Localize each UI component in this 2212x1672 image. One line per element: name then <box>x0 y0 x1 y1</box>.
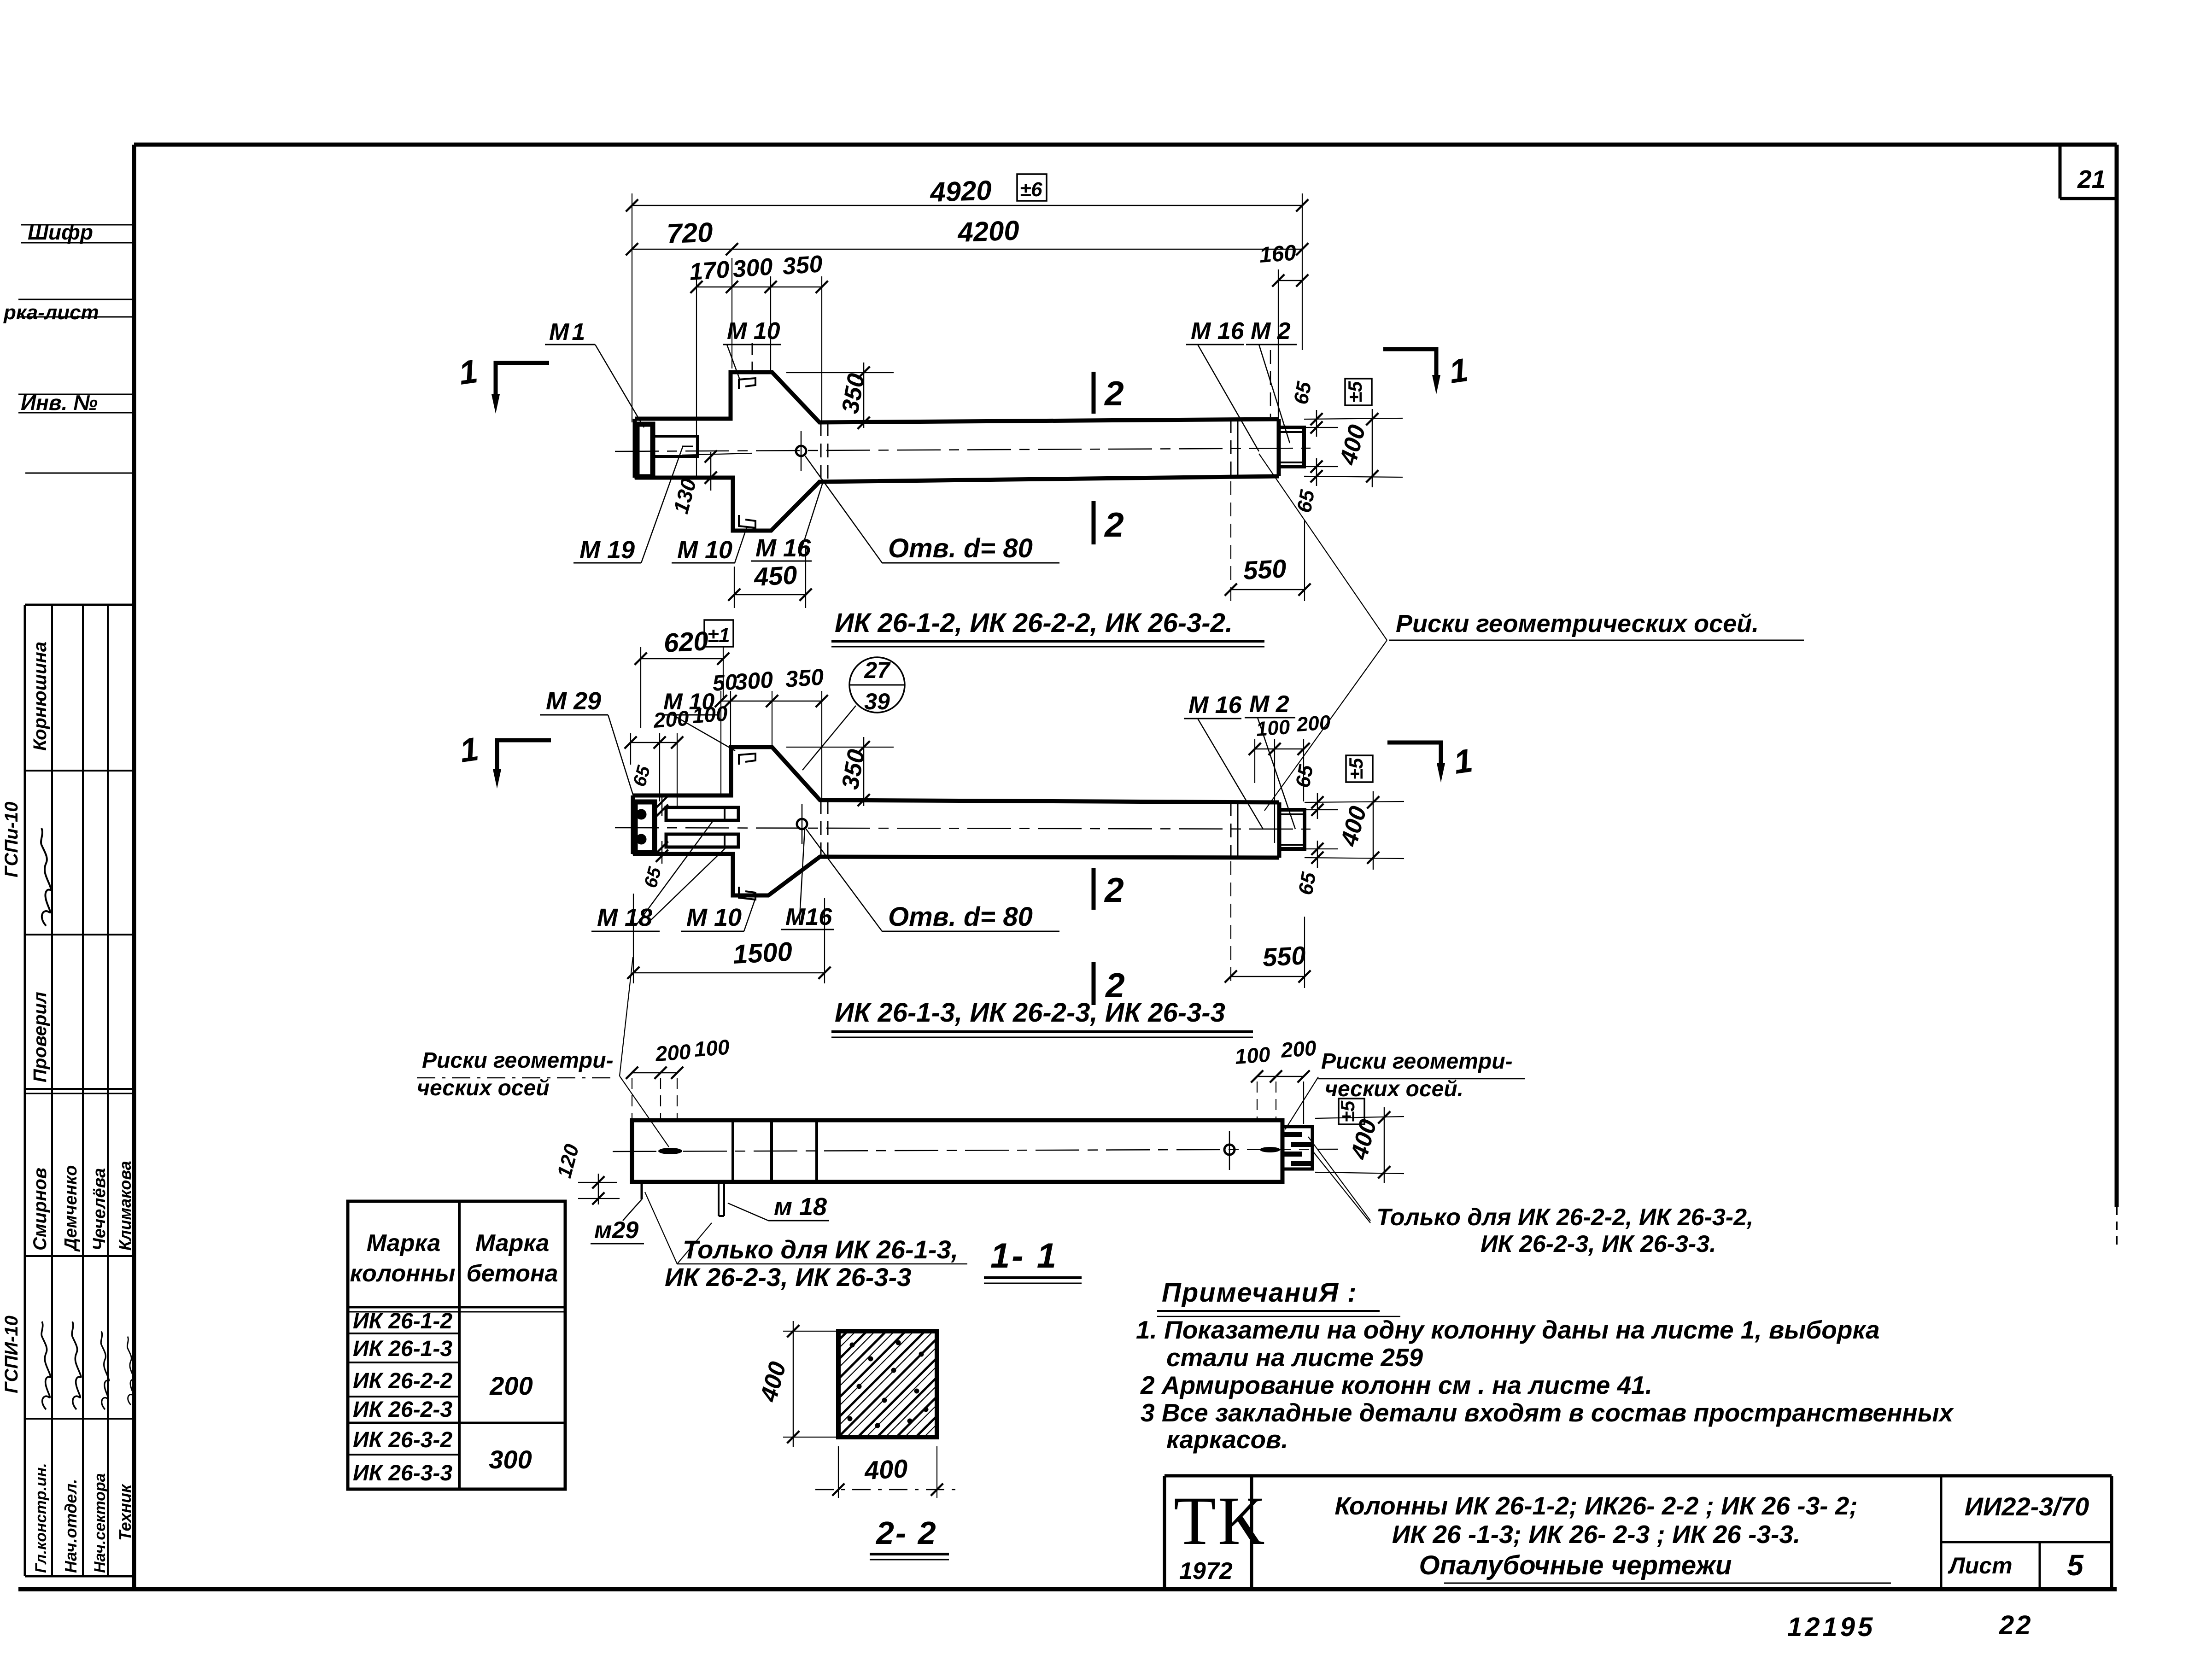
svg-text:ческих осей.: ческих осей. <box>1325 1077 1463 1101</box>
svg-text:ИК 26-2-2: ИК 26-2-2 <box>353 1369 452 1393</box>
dim 620 line <box>641 658 723 660</box>
svg-text:Отв. d= 80: Отв. d= 80 <box>888 533 1033 563</box>
stamp signature 2 (rotated) <box>41 1321 51 1409</box>
svg-text:ИК 26-2-3: ИК 26-2-3 <box>353 1397 452 1422</box>
svg-text:4920: 4920 <box>929 175 992 208</box>
svg-text:200: 200 <box>654 1040 692 1066</box>
right side 65 dim lower <box>1304 466 1338 467</box>
bottom view divider line 1 <box>731 1120 734 1182</box>
circle 27/39 leader <box>802 706 856 770</box>
position circle 27/39 <box>849 657 905 713</box>
bottom view hole <box>1224 1145 1235 1155</box>
title block horizontal divider (right) <box>1941 1541 2112 1543</box>
svg-text:21: 21 <box>2077 165 2106 193</box>
section mark 2 upper (middle view) <box>1092 868 1096 910</box>
middle view fork slot lower M18 <box>666 834 738 847</box>
svg-text:Шифр: Шифр <box>28 220 93 244</box>
svg-text:М 2: М 2 <box>1251 318 1291 345</box>
marks table row line 5 <box>348 1454 459 1456</box>
svg-text:Лист: Лист <box>1948 1553 2012 1578</box>
svg-text:±1: ±1 <box>708 624 730 647</box>
svg-text:Отв. d= 80: Отв. d= 80 <box>888 902 1033 932</box>
sheet frame right border (faint dashed part) <box>2116 1207 2118 1246</box>
dim 200/100 line (middle left) <box>631 742 677 743</box>
top view hole Otv d=80 <box>796 446 806 456</box>
svg-text:Техник: Техник <box>116 1484 135 1541</box>
svg-text:1972: 1972 <box>1179 1558 1233 1584</box>
dim 120 (bottom view left) <box>598 1174 599 1204</box>
sheet number box 21 <box>2059 145 2062 199</box>
dim 350 vertical (console height) <box>786 372 894 373</box>
sheet frame right border (solid part) <box>2115 145 2119 1207</box>
stamp table column line 2 <box>82 605 84 1576</box>
tolerance box ±6 <box>1017 174 1047 201</box>
middle view right end dashed line <box>1230 802 1232 858</box>
top view right end inner line <box>1237 419 1239 476</box>
top view section-2 dashed lines at shaft start <box>820 422 822 482</box>
dim 4920 line <box>632 205 1302 206</box>
middle view section-2 dashed lines <box>820 800 822 857</box>
svg-text:27: 27 <box>864 657 891 683</box>
stamp table row line y3080 <box>25 1418 134 1420</box>
marks table outer frame <box>348 1201 565 1489</box>
middle view M10 channel mark upper <box>739 754 755 765</box>
svg-text:2: 2 <box>1104 505 1124 544</box>
svg-text:39: 39 <box>864 689 890 714</box>
svg-text:Нач.сектора: Нач.сектора <box>91 1473 109 1573</box>
middle view anchor dot upper <box>636 809 646 819</box>
title block right edge <box>2110 1476 2113 1588</box>
section mark 2 lower (top view) <box>1092 501 1096 544</box>
sheet frame bottom border <box>18 1587 2117 1591</box>
top view centerline (dash-dot) <box>615 448 1311 451</box>
top view M10 channel mark lower <box>739 515 755 528</box>
bottom view centerline <box>613 1149 1338 1152</box>
title block right section divider <box>1940 1476 1943 1588</box>
svg-text:Марка: Марка <box>367 1230 441 1257</box>
svg-text:3 Все закладные детали вхо: 3 Все закладные детали входят в состав п… <box>1141 1398 1955 1427</box>
svg-text:200: 200 <box>1295 711 1331 736</box>
svg-text:Только для ИК 26-2-2, ИК 26-3-: Только для ИК 26-2-2, ИК 26-3-2, <box>1376 1204 1754 1231</box>
svg-text:1500: 1500 <box>732 936 793 970</box>
stamp signature 3 (rotated) <box>72 1321 81 1409</box>
svg-text:Корнюшина: Корнюшина <box>30 642 50 751</box>
svg-text:100: 100 <box>1234 1042 1271 1069</box>
right side 65 dim upper <box>1304 418 1403 419</box>
dim 350 vertical (middle console) <box>786 747 894 748</box>
svg-text:ПримечаниЯ :: ПримечаниЯ : <box>1162 1278 1358 1308</box>
svg-text:м 18: м 18 <box>774 1193 827 1221</box>
middle view column right end line <box>1277 802 1282 858</box>
svg-text:М 16: М 16 <box>1188 692 1242 719</box>
section mark 2 upper (top view) <box>1092 372 1096 414</box>
section mark 2 lower (middle view) <box>1092 962 1096 1005</box>
svg-text:Чечелёва: Чечелёва <box>90 1168 109 1251</box>
top view column outline upper <box>635 372 1279 422</box>
svg-text:160: 160 <box>1258 240 1297 267</box>
svg-text:М16: М16 <box>785 904 832 930</box>
dim 550 line (top right) <box>1231 589 1305 590</box>
dim 400 (bottom right end) <box>1315 1117 1404 1118</box>
left margin label: Шифр <box>21 224 134 226</box>
section 2-2 square outline <box>838 1331 937 1437</box>
tolerance box ±1 <box>704 620 733 647</box>
bottom view divider line 3 <box>815 1120 818 1182</box>
svg-text:Нач.отдел.: Нач.отдел. <box>61 1479 80 1573</box>
svg-text:Риски геометри-: Риски геометри- <box>422 1048 614 1073</box>
svg-text:ИК 26-3-3: ИК 26-3-3 <box>353 1461 452 1485</box>
svg-text:Проверил: Проверил <box>30 992 50 1082</box>
svg-text:ГСПИ-10: ГСПИ-10 <box>1 1315 22 1393</box>
svg-text:12195: 12195 <box>1787 1612 1875 1642</box>
svg-text:±5: ±5 <box>1344 381 1366 403</box>
bottom view M18 pin <box>718 1182 720 1216</box>
left margin stray line <box>25 473 134 474</box>
top view right tenon M2 <box>1279 427 1304 467</box>
stamp table outer box <box>25 604 134 606</box>
marks table row line 3 <box>348 1396 459 1397</box>
svg-text:22: 22 <box>1999 1610 2033 1640</box>
leaders to Tolko text (bottom right) <box>1308 1137 1370 1221</box>
left margin label: Марка-лист <box>18 299 134 300</box>
svg-text:4200: 4200 <box>957 215 1020 248</box>
sheet frame top border <box>134 143 2117 147</box>
svg-text:5: 5 <box>2067 1549 2084 1582</box>
svg-text:ИК 26-3-2: ИК 26-3-2 <box>353 1428 452 1452</box>
svg-text:ИК 26-2-3, ИК 26-3-3.: ИК 26-2-3, ИК 26-3-3. <box>1481 1231 1716 1257</box>
stamp signature 5 (rotated) <box>127 1337 134 1405</box>
svg-text:ИК 26-1-3: ИК 26-1-3 <box>353 1337 452 1361</box>
stamp table row line y2727 <box>25 1255 134 1257</box>
middle view anchor dot lower <box>636 834 646 844</box>
svg-text:стали на листе 259: стали на листе 259 <box>1166 1343 1423 1372</box>
title block top border <box>1165 1474 2112 1478</box>
svg-text:колонны: колонны <box>350 1260 456 1287</box>
top view M10 channel mark upper <box>739 378 755 389</box>
svg-text:М 10: М 10 <box>686 904 742 931</box>
middle view right tenon M2 <box>1279 810 1305 849</box>
svg-text:ческих осей: ческих осей <box>417 1076 550 1100</box>
svg-text:Колонны ИК 26-1-2; ИК26- 2-2: Колонны ИК 26-1-2; ИК26- 2-2 ; ИК 26 -3-… <box>1334 1491 1857 1520</box>
svg-text:М 10: М 10 <box>663 689 714 714</box>
svg-text:Риски геометри-: Риски геометри- <box>1321 1049 1513 1074</box>
svg-text:620: 620 <box>663 626 709 658</box>
top view bolt M19 <box>655 436 697 456</box>
stamp table row line y1673 <box>25 770 134 772</box>
dim 400 vertical (right end) <box>1372 409 1373 487</box>
section mark 1 left (top view) <box>496 363 549 397</box>
bottom view axis risk mark right <box>1260 1147 1280 1152</box>
svg-text:Смирнов: Смирнов <box>30 1168 50 1251</box>
stamp table column line 3 <box>107 605 109 1576</box>
svg-text:Марка: Марка <box>475 1230 550 1257</box>
svg-text:ИК 26-2-3, ИК 26-3-3: ИК 26-2-3, ИК 26-3-3 <box>665 1263 911 1292</box>
svg-text:2: 2 <box>1104 871 1124 909</box>
svg-text:ТК: ТК <box>1174 1483 1266 1559</box>
top view column right end line <box>1277 419 1281 476</box>
marks table column divider <box>458 1201 461 1489</box>
svg-text:М 10: М 10 <box>677 536 732 564</box>
svg-text:100: 100 <box>693 1035 731 1061</box>
svg-text:ИК 26-1-2, ИК 26-2-2, ИК 26-3-: ИК 26-1-2, ИК 26-2-2, ИК 26-3-2. <box>835 608 1233 638</box>
dim 100/200 (bottom view right) <box>1257 1076 1304 1077</box>
leaders to Tolko text (bottom left) <box>645 1192 677 1264</box>
tolerance box ±5 (top right) <box>1345 379 1372 405</box>
dim 130 vertical <box>710 452 712 491</box>
svg-text:300: 300 <box>732 253 774 283</box>
svg-text:720: 720 <box>666 217 713 249</box>
svg-text:Инв. №: Инв. № <box>21 391 98 415</box>
svg-text:1- 1: 1- 1 <box>990 1236 1058 1275</box>
middle view end plate M29 <box>635 802 655 853</box>
marks table header bottom double line <box>348 1306 565 1309</box>
svg-text:65: 65 <box>1293 488 1319 514</box>
section mark 1 right (middle view) <box>1387 742 1441 766</box>
middle view column outline lower <box>633 854 1279 895</box>
right side 65 dim lower (middle) <box>1305 848 1338 849</box>
middle view M10 channel mark lower <box>739 887 755 900</box>
dim 170/300/350 extension lines <box>696 276 697 479</box>
svg-text:бетона: бетона <box>467 1260 558 1287</box>
stamp table row line y2029 <box>25 934 134 935</box>
svg-text:ИИ22-3/70: ИИ22-3/70 <box>1965 1492 2089 1521</box>
top view end plate M1 <box>637 424 653 477</box>
svg-text:350: 350 <box>782 251 824 280</box>
svg-text:М 2: М 2 <box>1249 691 1289 718</box>
section mark 1 right (top view) <box>1383 349 1436 378</box>
dim 550 line (middle right) <box>1231 976 1305 977</box>
svg-text:200: 200 <box>1280 1036 1317 1062</box>
stamp table column line 1 <box>51 605 53 1576</box>
svg-text:М 19: М 19 <box>579 536 635 564</box>
svg-text:550: 550 <box>1262 941 1306 972</box>
svg-text:Только для ИК 26-1-3,: Только для ИК 26-1-3, <box>683 1235 958 1264</box>
stamp signature 4 (rotated) <box>101 1331 109 1409</box>
svg-text:2 Армирование колонн см .: 2 Армирование колонн см . на листе 41. <box>1140 1371 1652 1399</box>
svg-text:М 10: М 10 <box>727 318 780 345</box>
bottom view right tenon serrated <box>1282 1127 1312 1169</box>
svg-text:М 29: М 29 <box>546 687 601 715</box>
tolerance box ±5 (bottom right) <box>1339 1099 1364 1124</box>
svg-text:300: 300 <box>489 1445 532 1474</box>
svg-text:65: 65 <box>1290 380 1316 406</box>
middle view right end inner line <box>1237 802 1239 858</box>
marks table row line 1 <box>348 1333 459 1334</box>
section mark 1 left (middle view) <box>497 740 551 772</box>
svg-text:±6: ±6 <box>1020 178 1042 201</box>
dim 4920 extension lines <box>632 193 632 422</box>
svg-text:550: 550 <box>1242 554 1287 585</box>
svg-text:каркасов.: каркасов. <box>1166 1425 1288 1454</box>
svg-text:ИК 26 -1-3; ИК 26- 2-3 ; ИК: ИК 26 -1-3; ИК 26- 2-3 ; ИК 26 -3-3. <box>1392 1520 1801 1549</box>
bottom view body outline <box>632 1120 1282 1182</box>
stamp signature 1 (rotated) <box>41 828 51 926</box>
section 2-2 concrete dots <box>850 1343 855 1348</box>
svg-text:ИК 26-1-3, ИК 26-2-3, ИК 26-3-: ИК 26-1-3, ИК 26-2-3, ИК 26-3-3 <box>835 998 1225 1028</box>
svg-text:Климакова: Климакова <box>116 1161 135 1251</box>
marks table row line 4 <box>348 1422 565 1424</box>
bottom view axis risk mark left <box>658 1148 682 1154</box>
marks table row line 2 <box>348 1362 459 1363</box>
svg-text:2- 2: 2- 2 <box>875 1515 937 1551</box>
svg-text:ИК 26-1-2: ИК 26-1-2 <box>353 1309 452 1333</box>
dim 170/300/350 line <box>696 286 822 288</box>
top view column outline lower <box>635 476 1279 531</box>
top view right end dashed line <box>1230 419 1232 476</box>
title block TK box <box>1163 1476 1166 1588</box>
tolerance box ±5 (middle right) <box>1346 755 1373 782</box>
sheet frame left border <box>132 145 136 1589</box>
dim 450 line <box>734 594 806 596</box>
middle view centerline (dash-dot) <box>615 828 1311 829</box>
bottom view divider line 2 <box>770 1120 773 1182</box>
svg-text:Гл.констр.ин.: Гл.констр.ин. <box>32 1463 50 1573</box>
svg-text:65: 65 <box>1294 871 1321 897</box>
svg-text:м29: м29 <box>594 1217 638 1244</box>
svg-text:170: 170 <box>689 256 731 286</box>
svg-text:М 16: М 16 <box>1191 318 1245 345</box>
dim 100/200 line (middle right) <box>1255 748 1304 750</box>
svg-text:±5: ±5 <box>1345 758 1367 779</box>
svg-text:М1: М1 <box>549 319 588 345</box>
right side 65 dim upper (middle) <box>1305 801 1404 802</box>
svg-text:Демченко: Демченко <box>61 1165 81 1252</box>
dim 65 upper left (middle) <box>661 795 663 816</box>
svg-text:400: 400 <box>863 1454 908 1485</box>
middle view column outline upper <box>633 747 1279 802</box>
left margin label: Инв. No <box>18 394 134 395</box>
dim 160 line (top right) <box>1278 280 1302 281</box>
svg-text:450: 450 <box>753 560 798 591</box>
svg-text:2: 2 <box>1104 374 1124 413</box>
dim 65 lower left (middle) <box>661 841 663 864</box>
svg-text:рка-лист: рка-лист <box>3 301 99 324</box>
svg-text:200: 200 <box>489 1371 533 1400</box>
dim 200/100 (bottom view left) <box>632 1072 677 1074</box>
top view left end vertical (plate side) <box>633 419 637 478</box>
bottom view M29 corner tick <box>641 1182 643 1199</box>
svg-text:М 16: М 16 <box>755 534 811 562</box>
middle view fork slot upper M18 <box>666 807 738 820</box>
svg-text:Опалубочные чертежи: Опалубочные чертежи <box>1419 1550 1732 1580</box>
svg-text:М 18: М 18 <box>597 904 652 931</box>
dim 400 vertical (section 2-2) <box>783 1331 842 1332</box>
stamp table double row line y2364 <box>25 1088 134 1090</box>
title block list divider <box>2039 1542 2041 1588</box>
middle view hole Otv d=80 <box>797 819 807 829</box>
svg-text:Риски геометрических осей.: Риски геометрических осей. <box>1396 610 1759 637</box>
svg-text:300: 300 <box>734 666 774 695</box>
dim 400 horizontal (section 2-2) <box>838 1446 839 1498</box>
svg-text:350: 350 <box>784 664 825 692</box>
dim 1500 line <box>633 972 825 974</box>
dim 400 vertical (middle right end) <box>1373 791 1374 870</box>
dim 720/4200 line <box>632 249 1302 250</box>
dim 50/300/350 line <box>721 701 822 702</box>
svg-text:1. Показатели на одну коло: 1. Показатели на одну колонну даны на ли… <box>1136 1315 1880 1344</box>
middle view left end vertical <box>631 795 635 854</box>
svg-text:ГСПи-10: ГСПи-10 <box>1 802 22 877</box>
